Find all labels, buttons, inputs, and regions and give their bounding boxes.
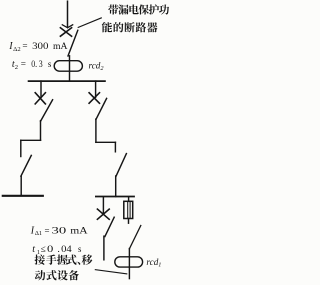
breaker QF3 blade bbox=[105, 217, 114, 236]
breaker QF1 blade bbox=[41, 100, 53, 121]
wire: sub-branch A tail (to socket outlets) bbox=[103, 236, 105, 260]
breaker QF0 cross (X at supply tip) bbox=[60, 28, 71, 37]
breaker QF0 blade bbox=[68, 30, 78, 56]
svg-text:≤: ≤ bbox=[41, 244, 46, 255]
fixed-equipment terminal bar bbox=[3, 195, 43, 197]
wire: left branch jog horizontal bbox=[21, 139, 41, 141]
wire: right branch vertical 3 bbox=[115, 176, 117, 197]
label t2 = 0.3 s bbox=[12, 59, 52, 71]
wire: left branch vertical 3 bbox=[20, 176, 22, 195]
switch S3 blade (fuse branch) bbox=[129, 226, 140, 249]
label IΔ1 = 30 mA bbox=[30, 225, 88, 237]
breaker QF2 cross bbox=[89, 93, 99, 104]
svg-text:Δ1: Δ1 bbox=[35, 230, 43, 237]
wire: right branch drop bbox=[95, 81, 97, 97]
leader line to note (带漏电保护...) bbox=[78, 18, 101, 28]
note line 3: 接手握式、移 bbox=[35, 254, 93, 264]
wire: fuse branch stub bbox=[128, 197, 130, 202]
RCD rcd2 stadium symbol bbox=[54, 61, 82, 71]
svg-text:s: s bbox=[78, 244, 82, 255]
wire: sub-branch A drop bbox=[102, 197, 104, 214]
svg-text:30: 30 bbox=[52, 225, 67, 236]
wire: left branch vertical 2 bbox=[20, 140, 22, 156]
svg-text:=: = bbox=[22, 41, 27, 52]
svg-text:=: = bbox=[45, 225, 50, 236]
svg-text:mA: mA bbox=[53, 41, 68, 52]
busbar 2 bbox=[96, 196, 134, 198]
switch S2 blade (right branch) bbox=[116, 154, 126, 177]
svg-text:0: 0 bbox=[47, 244, 53, 255]
breaker QF3 cross bbox=[97, 209, 109, 219]
busbar 1 bbox=[29, 80, 105, 82]
wire: right branch vertical 2 bbox=[114, 142, 116, 152]
svg-text:.: . bbox=[57, 244, 59, 255]
svg-text:Δ2: Δ2 bbox=[13, 46, 21, 53]
svg-text:04: 04 bbox=[61, 244, 72, 255]
breaker QF1 cross bbox=[35, 93, 45, 104]
RCD rcd1 stadium symbol bbox=[115, 257, 143, 267]
label t1 ≤ 0.04 s bbox=[32, 244, 81, 256]
label IΔ2 = 300 mA bbox=[8, 41, 67, 53]
wire through rcd2 bbox=[69, 56, 71, 81]
wire through rcd1 bbox=[128, 249, 130, 279]
svg-text:2: 2 bbox=[15, 64, 18, 71]
svg-text:mA: mA bbox=[70, 225, 87, 236]
wire: left branch vertical bbox=[40, 121, 42, 141]
fuse FU inner element lines bbox=[128, 202, 130, 218]
supply arrowhead bbox=[62, 25, 72, 28]
switch S1 blade (left branch) bbox=[21, 155, 31, 176]
leader line to note (接手握式...) bbox=[95, 270, 127, 274]
svg-text:300: 300 bbox=[32, 41, 49, 52]
breaker QF2 blade bbox=[96, 98, 107, 119]
wire: left branch drop bbox=[40, 81, 42, 97]
wire: right branch jog horizontal bbox=[96, 141, 116, 143]
supply feeder wire bbox=[67, 1, 69, 26]
wire: right branch vertical bbox=[95, 119, 97, 142]
note line 4: 动式设备 bbox=[35, 270, 79, 280]
svg-text:s: s bbox=[48, 59, 52, 70]
wire: fuse lower stub bbox=[128, 219, 130, 224]
svg-text:0. 3: 0. 3 bbox=[31, 59, 43, 70]
note line 1: 带漏电保护功 bbox=[108, 4, 169, 14]
note line 2: 能的断路器 bbox=[102, 22, 158, 32]
fuse FU body bbox=[124, 201, 133, 218]
svg-text:=: = bbox=[21, 59, 26, 70]
